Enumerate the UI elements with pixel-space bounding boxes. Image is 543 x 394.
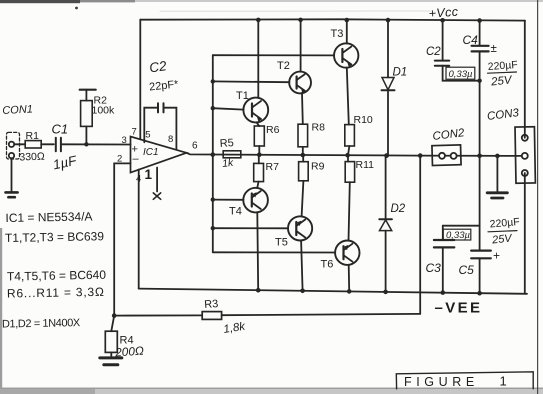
transistor T1 [243, 98, 268, 123]
node C4/C2b junction [477, 79, 481, 83]
wire pin8 to C2 [164, 108, 177, 150]
node C3 on -Vee rail [441, 290, 446, 295]
node T2 collector on rail [298, 18, 303, 23]
svg-text:T1: T1 [236, 90, 249, 102]
capacitor C2b (0,33µ decoupling +) [435, 20, 480, 80]
connector CON2 [432, 145, 461, 166]
wire T2 emitter to R8 [301, 93, 304, 124]
svg-text:22pF*: 22pF* [149, 78, 180, 93]
resistor R9 [299, 155, 309, 216]
value box 0,33µ (C3) [443, 229, 471, 241]
svg-text:IC1: IC1 [143, 147, 159, 158]
wire CON3 top pin to +Vcc [524, 21, 526, 138]
wire pin7 drop from rail to op-amp [139, 20, 141, 140]
svg-text:T1,T2,T3 = BC639: T1,T2,T3 = BC639 [5, 229, 105, 245]
svg-text:1µF: 1µF [52, 153, 79, 173]
node R3/R4 junction [112, 313, 117, 318]
ground (CON1) [6, 192, 18, 197]
node C5 on -Vee rail [477, 291, 482, 296]
diode D1 [382, 20, 395, 156]
svg-text:CON1: CON1 [2, 103, 33, 117]
transistor T6 [335, 241, 359, 265]
svg-text:C4: C4 [463, 33, 479, 47]
wire base to T5 [213, 227, 288, 229]
wire feedback tap from bus [419, 156, 421, 314]
svg-text:0,33µ: 0,33µ [449, 69, 473, 80]
resistor R5 [223, 151, 241, 158]
wire T1 collector [257, 20, 259, 98]
node R8 on bus [301, 153, 306, 158]
svg-text:T5: T5 [275, 237, 288, 249]
diode D2 [379, 156, 392, 292]
wire base-network vertical [212, 55, 214, 252]
svg-text:R11: R11 [356, 159, 375, 171]
svg-text:6: 6 [192, 141, 198, 152]
resistor R7 [254, 155, 264, 188]
op-amp U1 (IC1 NE5534) [131, 137, 187, 173]
svg-text:CON2: CON2 [432, 127, 466, 143]
capacitor C4 (220µF) [472, 20, 489, 155]
scan artifact top edge [0, 0, 543, 9]
svg-text:220µF: 220µF [489, 216, 520, 231]
svg-text:T6: T6 [321, 259, 334, 271]
node A (base drive node) [211, 152, 216, 157]
svg-text:T4,T5,T6 = BC640: T4,T5,T6 = BC640 [7, 268, 107, 284]
svg-text:R1: R1 [26, 130, 40, 142]
transistor T5 [288, 216, 312, 240]
wire inverting input net [114, 163, 130, 315]
svg-text:T2: T2 [277, 60, 290, 72]
wire pin5 to C2 [144, 108, 158, 143]
wire T2 collector [300, 20, 302, 72]
wire T6 collector to -Vee [348, 265, 351, 292]
capacitor C2 (22pF) [158, 103, 164, 112]
resistor R8 [298, 124, 308, 155]
scan artifact left edge [0, 228, 2, 394]
node T1 collector on rail [256, 18, 261, 23]
node junction input/R2 [84, 142, 88, 146]
node D1 on rail [386, 18, 391, 23]
transistor T4 [243, 188, 268, 213]
svg-text:R6: R6 [266, 124, 280, 136]
svg-text:R9: R9 [311, 161, 325, 173]
node D2 on -Vee rail [383, 290, 388, 295]
svg-text:R3: R3 [204, 298, 219, 311]
resistor R2 [80, 90, 96, 145]
node T2 base tap [211, 79, 215, 83]
scan artifact bottom edge [0, 388, 543, 394]
svg-text:T3: T3 [331, 28, 344, 40]
wire -Vee rail [139, 289, 527, 294]
value box 0,33µ [446, 67, 475, 80]
no-connect X on pin 1 [153, 193, 160, 199]
svg-text:D1,D2 = 1N400X: D1,D2 = 1N400X [2, 317, 81, 330]
node bus/C4 junction [477, 154, 482, 159]
faint pencil line above +Vcc rail [160, 10, 430, 12]
svg-text:8: 8 [168, 134, 173, 145]
svg-text:3: 3 [122, 135, 127, 146]
label 220µF/25V [487, 59, 518, 89]
wire CON1 pin2 to ground [11, 158, 13, 191]
svg-text:C2: C2 [426, 46, 441, 58]
node T1 base tap [211, 106, 215, 110]
wire base to T6 [213, 251, 335, 253]
svg-text:100k: 100k [92, 105, 116, 117]
wire +Vcc rail [140, 19, 525, 20]
svg-text:5: 5 [145, 130, 150, 141]
svg-text:±: ± [491, 43, 497, 55]
resistor R11 [345, 155, 354, 240]
ground (R4) [100, 358, 122, 365]
transistor T2 [289, 72, 311, 94]
connector CON3 [515, 127, 535, 184]
wire pin1 stub [156, 168, 158, 192]
svg-text:+: + [493, 249, 500, 263]
node T3 collector on rail [345, 18, 350, 23]
figure title box [396, 372, 533, 389]
svg-text:D2: D2 [391, 203, 406, 215]
svg-text:1: 1 [500, 374, 507, 389]
node feedback tap on bus [418, 153, 423, 158]
resistor R1 [25, 141, 54, 148]
svg-text:C5: C5 [459, 263, 475, 277]
svg-text:IC1 = NE5534/A: IC1 = NE5534/A [5, 209, 92, 225]
resistor R4 [105, 316, 117, 357]
node C4 on rail [477, 18, 482, 23]
scan artifact right page edge line [537, 0, 539, 394]
wire feedback line to R3 [114, 314, 202, 316]
label 220µF/25V (C5) [488, 216, 520, 247]
svg-text:25V: 25V [490, 74, 514, 88]
wire op-amp output bus (mid line) [187, 153, 525, 156]
transistor T3 [334, 43, 358, 67]
resistor R3 [202, 312, 420, 320]
wire ground stub [496, 156, 498, 192]
wire T4 collector to -Vee [256, 212, 259, 290]
resistor R6 [254, 126, 264, 155]
svg-text:C1: C1 [52, 122, 69, 137]
svg-text:+Vcc: +Vcc [428, 5, 459, 21]
wire CON1 pin1 to R1 [14, 143, 25, 145]
svg-text:330Ω: 330Ω [19, 151, 45, 164]
node D1/D2 on bus [384, 153, 389, 158]
wire CON3 bottom pin to -Vee [524, 173, 526, 294]
wire base to T4 [213, 199, 244, 201]
svg-text:R5: R5 [219, 137, 234, 150]
svg-text:25V: 25V [491, 232, 514, 246]
capacitor C5 (220µF) [471, 156, 491, 293]
node R6 on bus [257, 152, 262, 157]
node T5 base tap [211, 226, 215, 230]
node T5 on -Vee rail [300, 289, 305, 294]
svg-text:R6...R11 = 3,3Ω: R6...R11 = 3,3Ω [7, 285, 105, 301]
wire T3 collector [346, 20, 348, 44]
svg-text:–VEE: –VEE [435, 300, 483, 317]
svg-text:C2: C2 [148, 58, 168, 75]
node C2b on rail [440, 18, 445, 23]
wire T3 emitter to R10 [347, 68, 349, 125]
wire C1 to op-amp +input [61, 143, 131, 145]
wire pin4 to -Vee rail [138, 170, 140, 289]
node T4 base tap [211, 197, 215, 201]
connector CON1 [7, 132, 20, 159]
wire base to T2 [213, 80, 290, 83]
svg-text:CON3: CON3 [486, 107, 520, 123]
node T6 on -Vee rail [347, 289, 352, 294]
svg-text:220µF: 220µF [487, 59, 518, 73]
svg-text:1,8k: 1,8k [223, 321, 248, 336]
capacitor C3 (0,33µ) [434, 226, 480, 293]
svg-text:R7: R7 [266, 161, 280, 173]
svg-text:0,33µ: 0,33µ [446, 230, 470, 241]
svg-text:D1: D1 [393, 67, 408, 79]
svg-text:R8: R8 [312, 122, 326, 134]
wire base to T1 [213, 108, 244, 109]
svg-text:R10: R10 [354, 114, 373, 126]
capacitor C1 [56, 138, 61, 152]
ground (mid bus) [487, 193, 507, 198]
svg-text:C3: C3 [426, 261, 442, 275]
node bus/ground stub junction [495, 154, 500, 159]
node R10 on bus [345, 153, 350, 158]
svg-text:–: – [133, 153, 140, 165]
resistor R10 [345, 125, 355, 155]
wire T1 emitter to R6 [257, 122, 260, 126]
svg-text:1: 1 [145, 167, 153, 182]
wire base rail to T3 [213, 54, 334, 56]
svg-text:T4: T4 [229, 206, 242, 218]
wire T5 collector to -Vee [301, 240, 303, 290]
node T4 on -Vee rail [256, 288, 261, 293]
svg-text:FIGURE: FIGURE [404, 375, 479, 389]
svg-text:1k: 1k [222, 157, 235, 170]
svg-text:7: 7 [132, 127, 137, 138]
